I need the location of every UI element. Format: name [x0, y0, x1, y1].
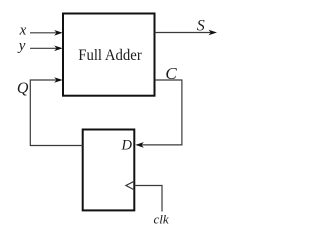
wire x input — [30, 32, 57, 34]
full adder U1 — [63, 14, 155, 96]
svg-text:clk: clk — [154, 211, 169, 226]
svg-text:Q: Q — [17, 80, 29, 97]
wire clk — [134, 186, 162, 212]
svg-text:y: y — [17, 38, 26, 54]
wire y input — [30, 47, 57, 49]
clock edge triangle — [126, 181, 134, 190]
D flip-flop U2 — [83, 130, 135, 211]
svg-text:S: S — [197, 17, 205, 34]
svg-text:D: D — [121, 138, 133, 154]
wire C to D input — [142, 80, 182, 145]
wire S output — [155, 32, 212, 34]
svg-text:x: x — [19, 23, 27, 39]
svg-text:Full Adder: Full Adder — [78, 47, 142, 64]
wire Q feedback — [30, 80, 82, 146]
